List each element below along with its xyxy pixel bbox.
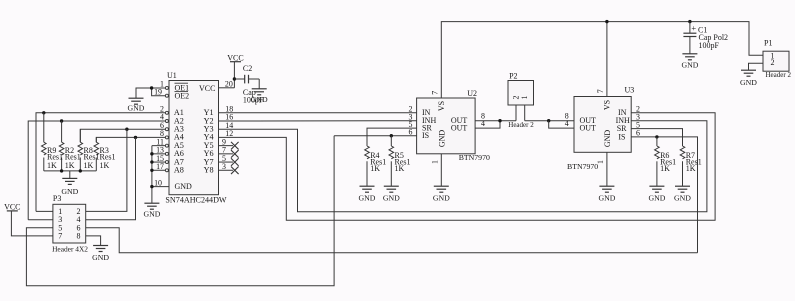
svg-text:GND: GND: [438, 130, 447, 148]
svg-text:GND: GND: [128, 103, 145, 112]
svg-text:IS: IS: [422, 131, 429, 140]
svg-text:VS: VS: [603, 100, 612, 110]
svg-text:4: 4: [565, 119, 569, 128]
svg-text:SN74AHC244DW: SN74AHC244DW: [165, 195, 227, 204]
svg-text:U2: U2: [467, 89, 477, 98]
svg-text:2: 2: [511, 95, 520, 99]
svg-text:A8: A8: [174, 166, 184, 175]
svg-text:6: 6: [409, 127, 413, 136]
svg-text:BTN7970: BTN7970: [459, 153, 490, 162]
svg-text:1K: 1K: [395, 164, 405, 173]
svg-text:12: 12: [225, 129, 233, 138]
svg-text:C2: C2: [243, 64, 252, 73]
svg-text:GND: GND: [143, 210, 160, 219]
svg-text:Header 2: Header 2: [766, 71, 792, 79]
svg-text:OE2: OE2: [175, 92, 190, 101]
svg-text:1K: 1K: [100, 161, 110, 170]
svg-text:1K: 1K: [84, 161, 94, 170]
svg-text:GND: GND: [681, 60, 698, 69]
svg-text:1: 1: [520, 95, 529, 99]
svg-text:GND: GND: [648, 193, 665, 202]
svg-text:VCC: VCC: [4, 202, 20, 211]
svg-text:100pF: 100pF: [699, 41, 720, 50]
svg-text:10: 10: [154, 178, 162, 187]
svg-text:VS: VS: [437, 101, 446, 111]
svg-text:GND: GND: [740, 78, 757, 87]
svg-text:GND: GND: [674, 193, 691, 202]
svg-text:VCC: VCC: [227, 53, 243, 62]
svg-text:GND: GND: [598, 193, 615, 202]
svg-text:P3: P3: [53, 194, 61, 203]
svg-text:20: 20: [225, 79, 233, 88]
svg-text:6: 6: [636, 129, 640, 138]
svg-text:GND: GND: [92, 253, 109, 262]
svg-text:1K: 1K: [370, 164, 380, 173]
svg-text:GND: GND: [603, 130, 612, 148]
svg-text:7: 7: [596, 89, 605, 93]
svg-text:1: 1: [431, 160, 440, 164]
svg-text:1K: 1K: [47, 161, 57, 170]
svg-text:1K: 1K: [65, 161, 75, 170]
svg-text:GND: GND: [433, 193, 450, 202]
svg-text:Y8: Y8: [204, 166, 214, 175]
svg-text:100pF: 100pF: [243, 95, 264, 104]
svg-text:Header 2: Header 2: [508, 121, 534, 129]
svg-text:GND: GND: [383, 193, 400, 202]
svg-text:7: 7: [58, 231, 62, 240]
svg-text:OUT: OUT: [451, 124, 468, 133]
svg-text:7: 7: [431, 91, 440, 95]
svg-text:1K: 1K: [660, 164, 670, 173]
svg-text:2: 2: [771, 58, 775, 67]
svg-text:U3: U3: [625, 86, 635, 95]
svg-text:GND: GND: [359, 193, 376, 202]
svg-text:8: 8: [77, 231, 81, 240]
svg-text:17: 17: [156, 162, 164, 171]
svg-text:BTN7970: BTN7970: [567, 162, 598, 171]
svg-text:+: +: [691, 23, 696, 33]
svg-text:GND: GND: [61, 187, 78, 196]
svg-text:OUT: OUT: [580, 124, 597, 133]
svg-text:3: 3: [222, 162, 226, 171]
svg-text:P1: P1: [764, 39, 772, 48]
svg-text:VCC: VCC: [199, 84, 215, 93]
svg-text:19: 19: [154, 87, 162, 96]
svg-text:P2: P2: [509, 72, 517, 81]
svg-text:1K: 1K: [686, 164, 696, 173]
svg-text:GND: GND: [175, 182, 193, 191]
svg-text:U1: U1: [167, 71, 177, 80]
svg-text:IS: IS: [618, 132, 625, 141]
svg-text:Header 4X2: Header 4X2: [52, 245, 88, 254]
